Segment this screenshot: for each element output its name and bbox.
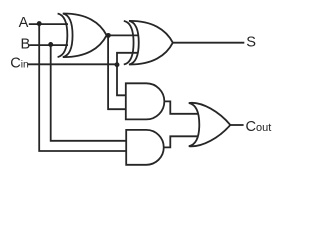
svg-text:Cout: Cout bbox=[246, 119, 272, 135]
svg-text:S: S bbox=[246, 35, 256, 51]
junction node XOR1 output bbox=[106, 33, 111, 38]
wire B input bbox=[29, 44, 68, 46]
svg-text:B: B bbox=[21, 36, 31, 52]
xor-gate U1 body bbox=[63, 13, 107, 57]
or-gate U5 body bbox=[189, 103, 231, 147]
xor-gate U2 front arc bbox=[124, 21, 134, 65]
svg-text:Cin: Cin bbox=[10, 56, 29, 72]
xor-gate U2 body bbox=[129, 21, 173, 65]
and-gate U3 body bbox=[126, 83, 165, 119]
wire A vertical down to AND2 lower input bbox=[39, 24, 126, 151]
wire A input bbox=[29, 23, 68, 25]
svg-text:A: A bbox=[19, 15, 29, 31]
xor-gate U1 front arc bbox=[58, 14, 68, 58]
junction node Cin bbox=[115, 62, 120, 67]
junction node A bbox=[37, 21, 42, 26]
wire Cin input bbox=[28, 63, 117, 65]
wire B vertical down to AND2 upper input bbox=[51, 45, 127, 141]
wire Cin up to XOR2 lower input bbox=[117, 53, 138, 65]
wire S output bbox=[173, 42, 245, 44]
wire AND1 output to OR upper input bbox=[164, 101, 198, 113]
junction node B bbox=[48, 42, 53, 47]
wire XOR1 output down to AND1 lower input bbox=[108, 35, 126, 109]
wire Cin down to AND1 upper input bbox=[117, 64, 127, 95]
wire AND2 output to OR lower input bbox=[164, 136, 199, 147]
wire Cout output bbox=[230, 124, 243, 126]
wire XOR1 output to XOR2 upper input bbox=[107, 34, 140, 36]
and-gate U4 body bbox=[126, 130, 164, 165]
